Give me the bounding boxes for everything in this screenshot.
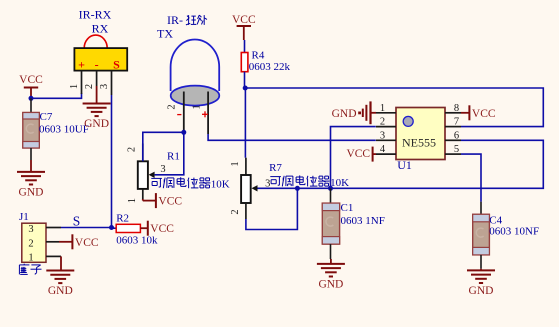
svg-text:6: 6 xyxy=(454,130,459,141)
svg-text:7: 7 xyxy=(454,117,459,128)
svg-text:3: 3 xyxy=(380,130,385,141)
resistor R4 0603 22k xyxy=(241,40,290,88)
ground GND at RX pin 2 xyxy=(83,86,111,130)
svg-text:8: 8 xyxy=(454,103,459,114)
junction node S xyxy=(109,225,114,230)
wire J1 pin 1 down xyxy=(60,256,62,270)
wire R4 node to U1 pin 7 xyxy=(245,88,543,127)
ground GND at J1 pin 1 xyxy=(46,271,74,298)
svg-text:10K: 10K xyxy=(330,177,349,189)
svg-text:GND: GND xyxy=(19,186,44,198)
svg-text:VCC: VCC xyxy=(232,14,256,26)
power port VCC at U1 pin 4 xyxy=(346,147,376,162)
svg-text:4: 4 xyxy=(380,144,386,155)
svg-text:2: 2 xyxy=(28,238,33,249)
timer IC U1 NE555 xyxy=(376,103,461,172)
power port VCC at J1 pin 2 xyxy=(59,234,99,249)
wire R4 node to R7 pin 1 xyxy=(244,88,246,158)
svg-text:GND: GND xyxy=(84,118,109,130)
svg-text:1: 1 xyxy=(230,161,241,166)
wire U1 pin 2 to trigger net xyxy=(331,127,376,189)
junction node VCC/C7/RX xyxy=(29,96,34,101)
junction node R7 wiper xyxy=(295,186,300,191)
junction node R4/R7/pin7 xyxy=(243,86,248,91)
svg-text:2: 2 xyxy=(167,104,178,109)
power port VCC above R4 xyxy=(232,14,256,40)
svg-text:2: 2 xyxy=(127,147,138,152)
svg-text:1: 1 xyxy=(380,103,385,114)
svg-text:+: + xyxy=(78,58,85,72)
svg-text:R4: R4 xyxy=(252,50,265,62)
ground GND below C1 xyxy=(317,259,345,290)
svg-text:VCC: VCC xyxy=(75,237,99,249)
wire R7 pin2 loop xyxy=(246,188,298,229)
resistor R2 0603 10k xyxy=(112,213,158,247)
svg-text:R1: R1 xyxy=(167,151,180,163)
wire U1 pin 5 to C4 xyxy=(461,154,481,202)
ground GND below C7 xyxy=(17,160,45,198)
svg-text:GND: GND xyxy=(469,285,494,297)
wire VCC node to RX pin 1 xyxy=(31,93,82,98)
svg-text:GND: GND xyxy=(48,285,73,297)
svg-text:IR-RX: IR-RX xyxy=(79,8,112,22)
svg-text:VCC: VCC xyxy=(150,223,174,235)
svg-text:10K: 10K xyxy=(211,178,230,190)
power port VCC at R2 xyxy=(140,221,174,236)
net label S xyxy=(73,213,81,228)
svg-text:2: 2 xyxy=(230,209,241,214)
svg-text:C1: C1 xyxy=(341,202,354,214)
svg-text:TX: TX xyxy=(157,27,173,41)
svg-text:5: 5 xyxy=(454,144,459,155)
potentiometer R1 10K xyxy=(127,144,230,204)
wire R1 wiper loop xyxy=(155,132,184,175)
ground GND below C4 xyxy=(467,269,495,297)
svg-text:1: 1 xyxy=(69,84,80,89)
svg-text:S: S xyxy=(73,213,81,228)
junction node TX anode xyxy=(181,130,186,135)
svg-text:1: 1 xyxy=(192,104,203,109)
svg-text:U1: U1 xyxy=(397,158,412,172)
svg-text:1: 1 xyxy=(127,198,138,203)
junction node C1 xyxy=(328,186,333,191)
svg-text:VCC: VCC xyxy=(346,148,370,160)
svg-text:GND: GND xyxy=(332,108,357,120)
capacitor C1 0603 1NF xyxy=(322,188,385,259)
svg-text:0603 10UF: 0603 10UF xyxy=(39,123,89,135)
svg-text:GND: GND xyxy=(318,278,343,290)
svg-text:IR-: IR- xyxy=(167,13,183,27)
power ground GND at U1 pin 1 xyxy=(332,101,376,124)
wire TX cathode to U1 pin 3 xyxy=(208,134,376,140)
svg-text:C7: C7 xyxy=(40,111,53,123)
potentiometer R7 10K xyxy=(230,158,349,219)
svg-text:R2: R2 xyxy=(116,213,129,225)
svg-text:3: 3 xyxy=(99,84,110,89)
capacitor C7 0603 10UF xyxy=(23,98,89,160)
svg-text:VCC: VCC xyxy=(19,74,43,86)
wire R1 pin2 to TX anode xyxy=(143,132,184,161)
svg-text:VCC: VCC xyxy=(158,196,182,208)
svg-text:3: 3 xyxy=(28,224,33,235)
capacitor C4 0603 10NF xyxy=(473,202,539,269)
power port VCC (supply to C7 / RX) xyxy=(19,74,43,98)
svg-text:3: 3 xyxy=(160,164,165,175)
svg-text:R7: R7 xyxy=(269,162,282,174)
svg-text:0603 22k: 0603 22k xyxy=(249,61,291,73)
svg-text:1: 1 xyxy=(28,253,33,264)
svg-text:-: - xyxy=(95,58,99,72)
IR transmitter LED TX xyxy=(157,13,219,134)
svg-text:0603 1NF: 0603 1NF xyxy=(341,215,385,227)
power port VCC at U1 pin 8 xyxy=(461,105,496,120)
IR receiver module RX (IR-RX) xyxy=(69,8,127,96)
svg-text:2: 2 xyxy=(84,84,95,89)
svg-text:S: S xyxy=(113,58,120,72)
svg-text:VCC: VCC xyxy=(472,108,496,120)
connector J1 (socket) xyxy=(19,211,61,274)
svg-text:0603 10k: 0603 10k xyxy=(116,235,158,247)
svg-text:RX: RX xyxy=(92,22,109,36)
wire trigger/threshold net to U1 pin 6 xyxy=(297,140,543,188)
wire J1 pin 3 to node S xyxy=(61,227,112,229)
power port VCC at R1 pin 1 xyxy=(143,193,183,208)
svg-text:NE555: NE555 xyxy=(402,135,436,149)
svg-text:0603 10NF: 0603 10NF xyxy=(489,225,539,237)
svg-text:2: 2 xyxy=(380,117,385,128)
wire R7 wiper to trigger net xyxy=(258,187,298,189)
svg-text:J1: J1 xyxy=(19,211,29,223)
wire RX pin 3 to node S xyxy=(111,95,113,228)
